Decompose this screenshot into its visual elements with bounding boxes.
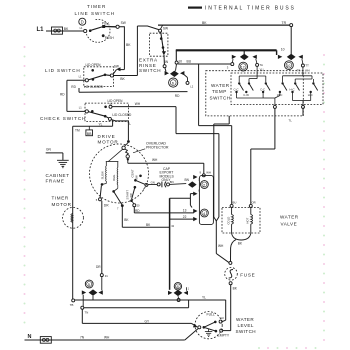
water valve enclosure — [222, 208, 260, 234]
wire top timer buss from line switch to TR corner — [158, 24, 290, 26]
svg-text:D: D — [81, 20, 84, 25]
svg-text:INTERNAL TIMER BUSS: INTERNAL TIMER BUSS — [205, 6, 296, 12]
svg-text:REG: REG — [112, 175, 116, 181]
ground symbol cabinet frame — [57, 160, 69, 168]
fuse — [225, 261, 256, 284]
cabinet frame label — [46, 173, 70, 183]
water temp switch inner enclosure — [231, 73, 323, 105]
wire N lead — [25, 329, 198, 340]
svg-text:10: 10 — [178, 59, 182, 63]
svg-text:FULL: FULL — [207, 313, 215, 317]
ground symbol under water level switch — [205, 329, 212, 337]
motor winding REG — [112, 168, 118, 189]
svg-text:RD: RD — [175, 94, 180, 98]
svg-text:SLOW: SLOW — [100, 171, 104, 180]
svg-text:SW: SW — [163, 27, 168, 31]
svg-text:LID CLOSED: LID CLOSED — [112, 113, 132, 117]
motor centrifugal switch CENT — [131, 169, 148, 191]
wire YL from check switch to timer-motor rail — [73, 121, 113, 133]
connector plug on L1 lead — [52, 27, 63, 34]
water valve hot solenoid — [246, 207, 253, 233]
svg-text:C-W: C-W — [243, 93, 249, 97]
svg-text:BN: BN — [185, 178, 190, 182]
svg-text:BN: BN — [170, 180, 174, 184]
wire riser to top buss for extra rinse — [136, 26, 138, 76]
svg-text:CENT: CENT — [131, 169, 135, 177]
node contact at bottom of timer motor rail — [70, 299, 75, 307]
svg-text:TIMER: TIMER — [52, 196, 69, 201]
svg-text:YL: YL — [99, 122, 103, 126]
svg-text:SW: SW — [134, 175, 138, 180]
svg-text:START: START — [125, 190, 129, 200]
wire BK motor common riser — [122, 206, 169, 228]
svg-text:H-C: H-C — [308, 93, 313, 97]
svg-text:PUSH: PUSH — [105, 36, 115, 40]
svg-text:WATER: WATER — [236, 317, 254, 322]
wire timer motor rail (left neutral rail) — [72, 126, 74, 299]
svg-text:BU: BU — [233, 201, 237, 205]
drive motor label — [98, 134, 119, 145]
svg-text:SWITCH: SWITCH — [139, 68, 161, 73]
cam 2 and 4 mounting box — [199, 175, 213, 224]
water temp switch internal wiring — [237, 73, 314, 105]
svg-text:HI: HI — [221, 316, 224, 320]
svg-text:RD: RD — [60, 92, 65, 96]
legend: internal timer buss symbol — [188, 6, 202, 8]
timer cam 8 — [168, 283, 190, 299]
wire WH overload to cam2 box contact — [128, 158, 204, 174]
svg-text:10: 10 — [286, 64, 290, 68]
svg-text:VALVE: VALVE — [281, 222, 298, 227]
overload protector — [122, 143, 129, 164]
water temp switch label — [210, 83, 231, 101]
extra rinse switch label — [139, 58, 161, 74]
water valve cold solenoid — [227, 207, 234, 233]
svg-text:WH: WH — [305, 69, 310, 73]
water temp switch outer enclosure — [206, 71, 303, 116]
svg-text:COLD: COLD — [227, 217, 231, 225]
capacitor cap export models — [148, 167, 186, 187]
svg-text:SW: SW — [114, 65, 119, 69]
svg-text:WH: WH — [206, 170, 211, 174]
water level switch assembly — [195, 312, 230, 339]
wire BK fuse to water level switch — [223, 285, 238, 331]
wire YL full contact riser — [222, 300, 226, 322]
svg-text:DRIVE: DRIVE — [98, 134, 116, 139]
motor slow-speed contact and arm — [96, 183, 109, 207]
wire neutral run YL to water level switch full contact — [75, 296, 226, 300]
drive motor enclosure — [90, 144, 149, 203]
node contact on neutral run under cam 8 — [177, 299, 180, 302]
wire drop from top buss to cam 10 diamond — [290, 27, 292, 55]
svg-text:SWITCH: SWITCH — [236, 329, 257, 334]
wire check switch lid-open contact to fuse riser — [112, 102, 219, 221]
check switch assembly — [79, 99, 132, 122]
svg-text:31: 31 — [105, 274, 109, 278]
timer cam D — [79, 18, 86, 25]
wire BU drop to cold water valve — [199, 64, 232, 204]
timer cam 10 — [277, 47, 310, 73]
timer motor — [63, 207, 84, 228]
svg-text:WH: WH — [218, 244, 224, 248]
motor regular-speed contact and arm — [112, 188, 123, 210]
svg-text:MOTOR: MOTOR — [52, 202, 72, 207]
extra rinse switch assembly — [150, 27, 169, 72]
node 9 WH contact on cam box — [200, 170, 211, 176]
timer line switch label — [75, 4, 116, 16]
svg-text:12: 12 — [241, 66, 245, 70]
svg-text:BB: BB — [87, 132, 92, 136]
svg-text:L1: L1 — [37, 27, 45, 33]
overload protector label with leader — [133, 141, 169, 153]
svg-text:EMPTY: EMPTY — [218, 333, 230, 337]
timer line switch contacts and arm — [80, 19, 126, 42]
timer cam 2 — [185, 175, 209, 196]
motor start switch START — [125, 186, 140, 213]
node OR hot valve contact — [249, 201, 255, 208]
svg-text:LID CLOSED: LID CLOSED — [84, 85, 104, 89]
svg-text:LINE SWITCH: LINE SWITCH — [75, 11, 116, 16]
svg-text:N: N — [28, 334, 32, 340]
ground wire GN to cabinet frame — [46, 148, 63, 160]
svg-text:DR: DR — [104, 203, 109, 207]
motor winding feed — [106, 149, 123, 167]
svg-text:C-C: C-C — [260, 87, 265, 91]
svg-text:C-C: C-C — [234, 87, 239, 91]
wire valve common return BK — [231, 234, 251, 262]
svg-text:YL: YL — [202, 296, 206, 300]
water valve label — [280, 215, 299, 227]
wire second neutral run to cam 8 drop — [84, 300, 189, 308]
node junction at overload input — [127, 140, 130, 143]
wire check switch lid-closed contact to drive motor, label TL — [111, 120, 131, 141]
svg-text:WATER: WATER — [211, 83, 230, 88]
wire OR pin 2 to hot valve solenoid — [251, 108, 275, 204]
connector plug on N lead — [40, 337, 51, 344]
wire top buss tap to extra rinse switch — [137, 26, 158, 30]
node pin 1 of water temp switch — [302, 105, 305, 108]
svg-text:WATER: WATER — [280, 215, 299, 220]
svg-text:TN: TN — [85, 311, 89, 315]
wire BU from cam 6 contact to cam 12 contact — [178, 60, 231, 65]
node pin 2 of water temp switch — [273, 105, 276, 108]
svg-text:LID OPEN: LID OPEN — [108, 99, 124, 103]
svg-text:TB: TB — [70, 303, 74, 307]
svg-text:CHECK SWITCH: CHECK SWITCH — [40, 116, 86, 121]
wire DR from motor slow contact down to cam 5 — [96, 201, 102, 274]
wire motor start to cam 4 pin 13 — [134, 207, 194, 213]
wire RD from lid switch left contact down to check switch — [60, 80, 85, 111]
timer cam 12 — [227, 50, 264, 73]
svg-text:TL: TL — [289, 119, 293, 123]
svg-text:TT: TT — [305, 64, 309, 68]
wire WH water temp to fuse — [214, 116, 230, 263]
svg-text:PROTECTOR: PROTECTOR — [146, 146, 169, 150]
svg-text:RINSE: RINSE — [139, 63, 157, 68]
svg-text:GN: GN — [151, 180, 155, 184]
connector BB on rail — [86, 126, 93, 136]
lid switch assembly — [71, 63, 113, 89]
svg-text:FRAME: FRAME — [46, 179, 65, 184]
svg-text:TR: TR — [282, 21, 287, 25]
svg-text:10: 10 — [281, 47, 285, 51]
svg-text:13: 13 — [183, 209, 187, 213]
svg-text:H-C: H-C — [290, 87, 295, 91]
wire L1 lead-in — [46, 30, 83, 32]
svg-text:BK: BK — [120, 77, 125, 81]
svg-text:TEMP: TEMP — [212, 89, 227, 94]
svg-text:GN: GN — [46, 148, 51, 152]
svg-text:BK: BK — [202, 21, 207, 25]
svg-text:TA: TA — [260, 63, 264, 67]
svg-text:CABINET: CABINET — [46, 173, 70, 178]
node TR: open contact on top buss — [290, 24, 293, 27]
timer cam 6 — [165, 61, 194, 88]
svg-text:WH: WH — [135, 102, 141, 106]
motor winding SLOW — [100, 166, 106, 184]
svg-text:7N: 7N — [80, 336, 85, 340]
wire cam2 lower pin bracket — [170, 194, 194, 208]
node junction circle cam5 left drop — [81, 306, 88, 314]
wire GY run to water level switch — [82, 309, 198, 327]
svg-text:SWITCH: SWITCH — [210, 96, 231, 101]
node BU cold valve contact — [230, 201, 236, 208]
svg-text:WH: WH — [152, 158, 158, 162]
wire lid switch right contact to extra rinse riser, label BK — [114, 76, 138, 81]
svg-text:RD: RD — [71, 85, 76, 89]
svg-text:BK: BK — [64, 27, 69, 31]
wire BK riser down to cam 8 — [170, 198, 175, 290]
svg-text:HOT: HOT — [246, 217, 250, 223]
timer cam 5 — [82, 277, 103, 307]
wire drop SW to lid switch, label BK — [113, 27, 131, 75]
svg-text:EXTRA: EXTRA — [139, 58, 158, 63]
svg-text:BU: BU — [187, 60, 192, 64]
svg-text:BK: BK — [126, 43, 131, 47]
wire RD from lid closed stub to cam 6 right contact — [79, 88, 188, 98]
timer cam 4 — [183, 209, 209, 222]
water temp switch contacts — [234, 82, 318, 97]
wire thick internal buss to cam 6 contact — [176, 50, 277, 63]
svg-text:LID SWITCH: LID SWITCH — [45, 68, 81, 73]
svg-text:TIMER: TIMER — [87, 4, 106, 9]
svg-text:22: 22 — [183, 215, 187, 219]
svg-text:FUSE: FUSE — [240, 273, 255, 278]
svg-text:SW: SW — [121, 21, 126, 25]
svg-text:LEVEL: LEVEL — [238, 323, 254, 328]
wire TL stub from pin 1 — [289, 108, 304, 122]
svg-text:WH: WH — [104, 336, 110, 340]
wire cam 4 pin 22 from motor riser — [170, 218, 194, 220]
svg-text:OR: OR — [252, 201, 256, 205]
timer motor label — [52, 196, 72, 208]
svg-text:TM: TM — [75, 128, 80, 132]
svg-text:DR: DR — [96, 265, 101, 269]
svg-text:MOTOR: MOTOR — [98, 140, 119, 145]
water level switch label — [236, 317, 257, 334]
node contact 31 top of cam 5 arm — [100, 274, 108, 278]
svg-text:TL: TL — [127, 122, 131, 126]
